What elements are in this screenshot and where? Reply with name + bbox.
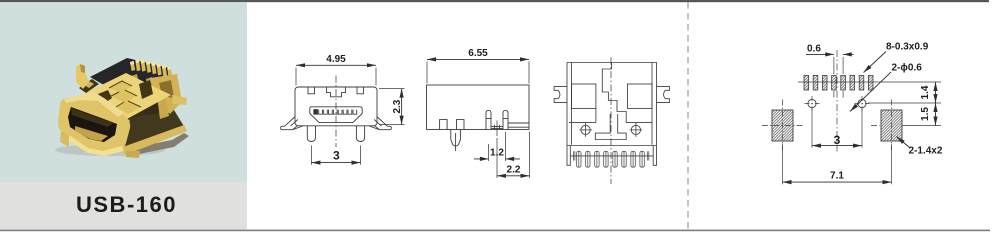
footprint pad center line C — [902, 125, 941, 127]
bottom view screw circle right — [631, 125, 640, 134]
photo flecks on black band — [131, 74, 167, 87]
dim 7.1 ext lines — [783, 144, 892, 184]
dim 4.95 extension lines — [296, 68, 376, 86]
front top notch left — [308, 87, 315, 93]
photo pin glint tips — [130, 59, 171, 70]
top border bar — [0, 0, 989, 2]
dim 1.2 line with outside arrows — [474, 158, 520, 160]
dim 3 line — [311, 162, 360, 164]
front centerline — [335, 76, 337, 148]
dim 2.2 extension lines — [497, 132, 530, 179]
front top notch right — [357, 87, 364, 93]
dim 0.6 ext lines — [834, 57, 843, 98]
dim 1.5 vertical line — [935, 103, 937, 126]
dim 2.3 line — [401, 89, 403, 125]
front top notch center stepped — [327, 87, 346, 96]
leader 2-phi0.6 — [850, 72, 891, 112]
photo black pin block — [90, 58, 171, 99]
bottom view inner wall left — [571, 63, 573, 145]
leader 2-1.4x2 — [897, 137, 910, 148]
photo socket opening dark — [68, 107, 117, 142]
side pin 1 rounded top — [486, 110, 491, 129]
dim 1.2 extension lines — [489, 132, 506, 161]
svg-text:2-1.4x2: 2-1.4x2 — [909, 146, 943, 157]
dim 6.55 line — [427, 58, 529, 60]
bottom view foot right — [653, 144, 656, 166]
left panel gray label background — [0, 182, 247, 229]
photo shadow soft — [55, 144, 165, 156]
footprint big pad right centerlines — [871, 100, 892, 151]
svg-text:1.4: 1.4 — [920, 85, 931, 99]
footprint big pad left centerlines — [762, 100, 803, 151]
svg-text:0.6: 0.6 — [807, 44, 821, 55]
dim 4.95 line — [296, 64, 376, 66]
side notch 1 — [440, 120, 448, 130]
bottom view left shelf — [569, 108, 596, 122]
side notch 2 — [457, 120, 465, 130]
front flange right — [369, 117, 391, 130]
svg-text:7.1: 7.1 — [830, 171, 844, 182]
photo dark cutout below H — [112, 97, 146, 121]
photo front face top bevel highlight — [64, 92, 124, 117]
svg-text:2.3: 2.3 — [392, 99, 403, 113]
photo right flange — [172, 95, 187, 105]
photo left foot — [60, 130, 69, 147]
photo top face H seam — [109, 81, 141, 114]
bottom view comb end nub left — [573, 151, 575, 160]
photo dark plastic mid-right — [127, 88, 170, 121]
photo gold top face — [79, 73, 171, 119]
leader 8-0.3x0.9 — [864, 52, 887, 73]
dim 1.4 vertical line — [935, 82, 937, 103]
bottom view right side tab — [657, 86, 670, 102]
photo top face dark patch left of H — [98, 90, 112, 105]
side slot right of pin2 — [508, 123, 529, 127]
photo right side dark face — [124, 110, 185, 150]
left panel teal background — [0, 2, 247, 182]
footprint big pad left — [772, 110, 793, 141]
photo right end cap shadow seam — [159, 80, 174, 98]
bottom view screw circle left — [581, 125, 590, 134]
dim 2.3 extension lines — [379, 89, 405, 125]
photo right end cap gold — [150, 74, 182, 114]
photo mid foot — [126, 151, 140, 158]
photo right gold bar — [157, 94, 169, 119]
dim 3 line — [812, 109, 862, 148]
photo left prong — [76, 64, 89, 89]
svg-text:USB-160: USB-160 — [76, 192, 177, 217]
svg-text:2.2: 2.2 — [507, 164, 521, 175]
bottom view center seam — [602, 63, 652, 123]
bottom view centerline — [610, 58, 612, 185]
photo left prong shadow — [80, 64, 85, 73]
bottom view outer walls — [567, 63, 657, 144]
photo opening inner top shade — [71, 108, 113, 127]
dim 2.2 line — [497, 175, 530, 177]
svg-text:2-ɸ0.6: 2-ɸ0.6 — [892, 63, 923, 74]
footprint pad row (8 hatched pads) — [804, 76, 873, 91]
dim 6.55 extension lines — [427, 62, 529, 84]
side centerline — [496, 121, 498, 137]
footprint pad row centerline A — [798, 81, 941, 83]
side body outline — [427, 85, 530, 130]
bottom view left block — [572, 84, 596, 108]
photo top face seam shadow lines — [109, 81, 141, 107]
front mini-USB opening — [310, 107, 362, 123]
footprint hole centerline B — [868, 102, 941, 104]
bottom view circle right cross — [630, 123, 643, 137]
bottom view comb end nub right — [647, 151, 649, 160]
photo top face knob — [82, 93, 86, 96]
dim 7.1 line — [783, 181, 892, 183]
svg-text:8-0.3x0.9: 8-0.3x0.9 — [886, 42, 929, 53]
photo top face dark patch right of H — [139, 80, 153, 99]
footprint vertical centerline — [836, 50, 838, 152]
front contacts 2-9 — [319, 110, 357, 115]
front leg left — [307, 126, 315, 142]
bottom view left side tab — [554, 86, 567, 102]
vertical dashed separator — [687, 2, 689, 229]
front leg right — [356, 126, 364, 142]
bottom view inner wall right — [651, 63, 653, 145]
bottom view right block — [628, 84, 652, 108]
front body outline — [295, 87, 377, 126]
svg-text:3: 3 — [834, 133, 841, 147]
photo shadow right dark — [126, 133, 189, 156]
side leg — [451, 130, 461, 152]
footprint hole left — [808, 99, 816, 107]
dim 3 extension lines — [311, 146, 360, 165]
footprint hole right crosshair — [855, 96, 870, 111]
photo front face gold — [58, 97, 130, 155]
bottom border line — [0, 230, 990, 232]
svg-text:3: 3 — [333, 149, 340, 163]
bottom view band top line — [567, 145, 657, 147]
photo gold pin comb — [130, 59, 172, 78]
photo bottom-right gold strip — [120, 125, 187, 155]
bottom view center pedestal — [595, 114, 626, 140]
bottom view comb pins — [573, 151, 648, 167]
bottom view foot left — [567, 144, 570, 166]
photo top face upper-left dark slot — [79, 79, 99, 93]
side pin 2 rounded top — [503, 110, 508, 129]
svg-text:1.5: 1.5 — [920, 107, 931, 121]
front flange left — [281, 117, 303, 130]
photo top face slot gold bridge — [84, 81, 94, 88]
photo front bottom rim highlight — [60, 130, 124, 156]
dim 0.6 line with outside arrows — [806, 53, 854, 55]
svg-text:6.55: 6.55 — [468, 48, 488, 59]
footprint hole left crosshair — [805, 96, 820, 111]
svg-text:4.95: 4.95 — [326, 54, 346, 65]
bottom view body bottom line — [570, 155, 653, 157]
side seat detail between pins — [491, 125, 503, 130]
photo tongue inside opening — [75, 126, 108, 141]
footprint big pad right — [881, 110, 902, 141]
footprint hole right — [858, 99, 866, 107]
bottom view circle left cross — [579, 123, 592, 137]
front contact pin1 filled — [314, 110, 318, 115]
